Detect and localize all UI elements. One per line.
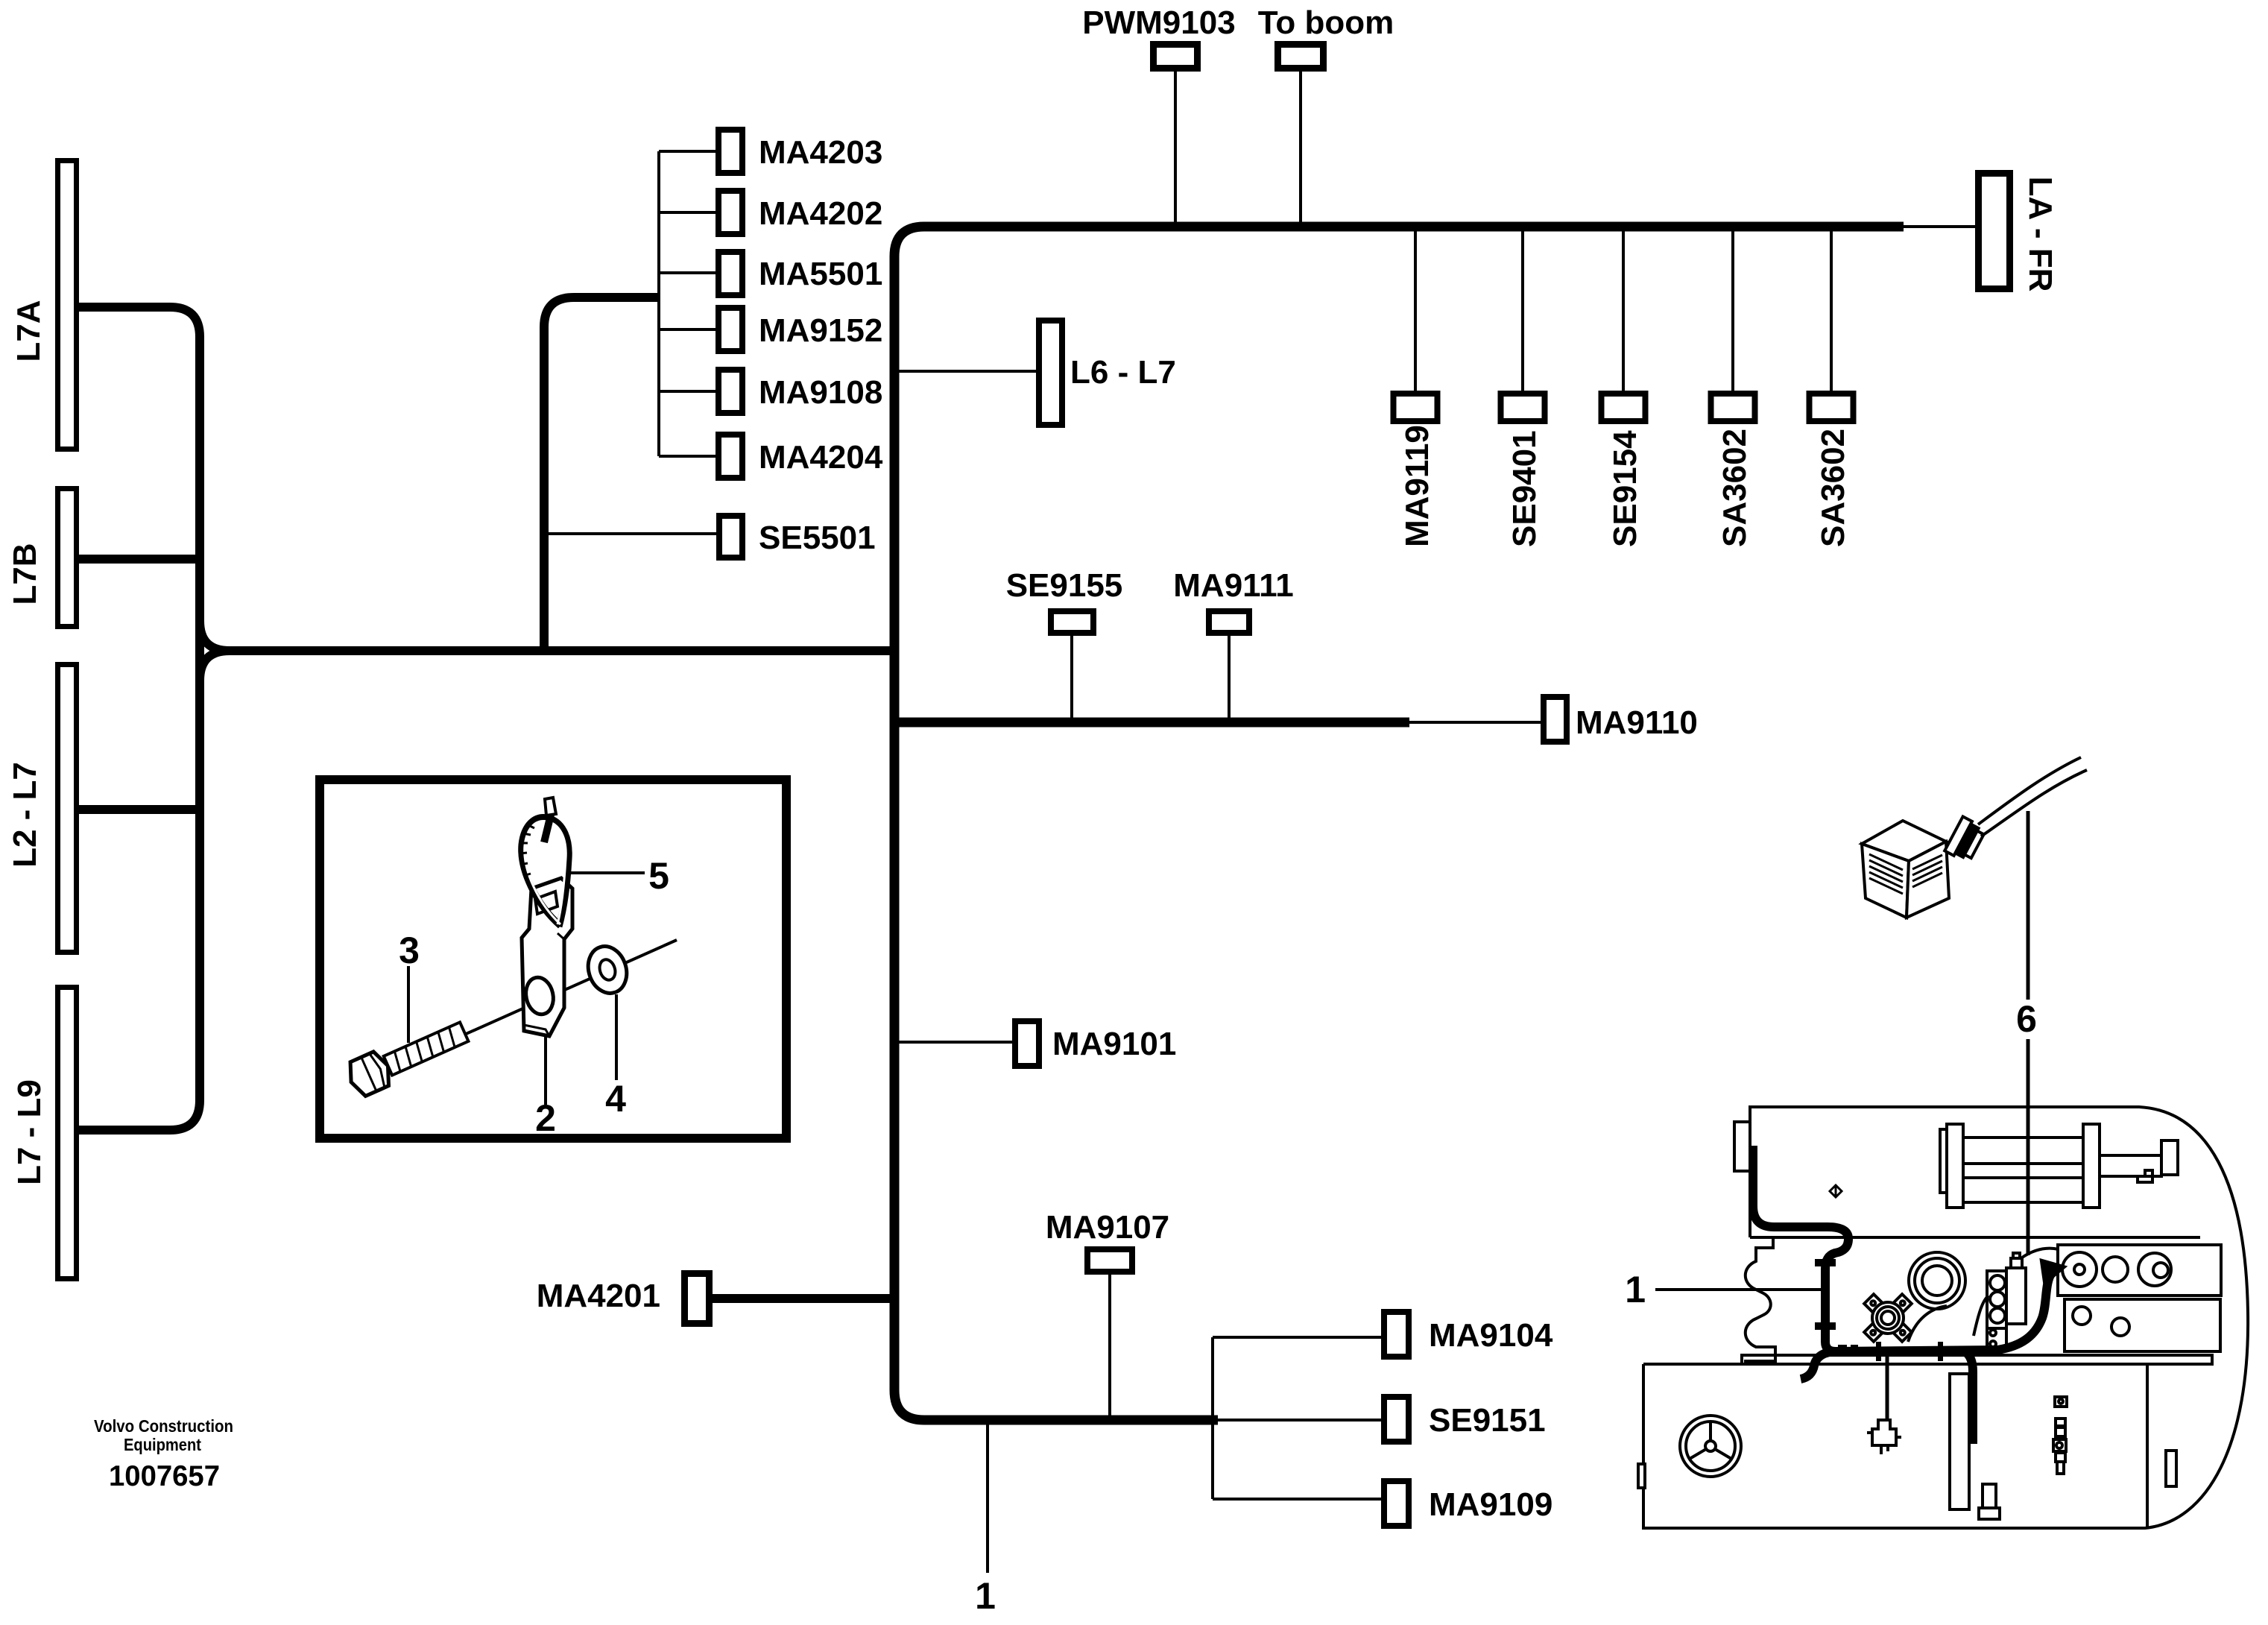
machine left tab (lower) [1638,1464,1645,1488]
svg-text:L6 - L7: L6 - L7 [1070,354,1176,391]
wire branch to fuel valve [1886,1351,1889,1422]
svg-text:MA9107: MA9107 [1046,1209,1169,1246]
svg-text:SE9401: SE9401 [1506,430,1543,547]
item 6 leader line [2027,811,2030,1255]
machine left wavy edge [1744,1237,1775,1361]
svg-text:MA5501: MA5501 [759,256,882,292]
wire SA3602 stem (first) [1731,231,1734,392]
hydraulic cylinder bleed detail [2138,1170,2152,1182]
ECU connector block [1987,1271,2006,1328]
wire thin curl near flange [1908,1306,1947,1342]
hydraulic cylinder end cap [2161,1140,2178,1175]
wire bus2 to MA9110 [1409,721,1541,724]
label 2 leader [544,1035,547,1105]
svg-text:2: 2 [535,1097,556,1139]
wire bus1 junction horizontal to main bus [200,621,894,681]
svg-text:1007657: 1007657 [109,1460,220,1492]
svg-text:SE9151: SE9151 [1429,1402,1546,1439]
DIN connector neck [1945,816,1986,863]
svg-text:1: 1 [1625,1269,1646,1310]
connector MA4202 [718,191,742,234]
DIN connector hatching [1869,854,1903,894]
svg-text:L7B: L7B [7,543,43,605]
svg-text:Equipment: Equipment [124,1435,201,1454]
wire to L6-L7 [899,370,1036,373]
lower right small rect [2166,1451,2176,1486]
connector SA3602 (second) [1810,394,1854,421]
bracket (item 2) [522,878,572,1036]
connector SE9155 [1051,611,1093,633]
wire to MA9101 [899,1041,1012,1044]
svg-text:L7A: L7A [10,300,47,362]
svg-text:PWM9103: PWM9103 [1082,4,1235,41]
svg-text:MA9110: MA9110 [1576,704,1698,741]
ECU bolt dots [1990,1330,1996,1336]
bus2 horizontal [899,718,1409,728]
connector MA9101 [1015,1021,1039,1066]
DIN connector cable [1978,757,2081,824]
machine mid deck line [1750,1236,2200,1239]
connector SE9154 [1602,394,1646,421]
instrument panel upper [2058,1245,2221,1296]
connector PWM9103 [1154,45,1198,69]
svg-text:MA4202: MA4202 [759,195,882,232]
svg-text:To boom: To boom [1258,4,1394,41]
cable tie (item 5) [519,798,569,927]
connector MA5501 [718,252,742,295]
wire MA stack bracket [659,151,716,456]
fuel valve symbol [1867,1420,1901,1454]
svg-text:MA4203: MA4203 [759,134,882,171]
wire to MA9104 [1213,1336,1381,1339]
svg-text:SE5501: SE5501 [759,520,876,556]
inset axis line through bolt, bracket and washer [402,940,677,1062]
connector bar L2-L7 [58,665,77,953]
wire feeder to MA stack [544,297,657,646]
lower body tall panel [1950,1374,1969,1509]
wire leader for item 1 (bottom) [986,1424,989,1573]
wire SA3602 stem (second) [1830,231,1833,392]
ECU small top connectors [2011,1258,2022,1268]
main bus: top bus, vertical trunk, bottom bus3 [894,227,1904,1420]
hydraulic cylinder shaft [2100,1155,2161,1176]
wire SE9154 stem [1622,231,1625,392]
connector MA9152 [718,308,742,351]
connector MA9110 [1544,697,1567,742]
machine harness thick path [1753,1146,2052,1444]
wire thin curl to ECU bottom [1974,1296,1989,1336]
connector MA9107 [1087,1249,1132,1272]
connector SA3602 (first) [1711,394,1755,421]
svg-text:MA9101: MA9101 [1052,1026,1176,1062]
pump circles [1909,1252,1965,1309]
svg-text:SA3602: SA3602 [1815,429,1851,547]
hydraulic cylinder rails [1963,1137,2083,1202]
svg-text:MA9111: MA9111 [1173,567,1293,604]
wire to SE9151 [1218,1419,1381,1422]
washer (item 4) [582,941,632,998]
label 5 leader [569,871,645,874]
floor plug [1983,1484,1996,1508]
svg-text:MA4204: MA4204 [759,439,883,476]
hydraulic cylinder right plate [2083,1124,2100,1208]
instrument panel lower [2065,1299,2220,1351]
connector MA4201 [685,1274,710,1324]
wire L2-L7 tee [79,805,204,814]
connector LA-FR [1979,174,2010,289]
label 4 leader [615,994,618,1080]
svg-text:4: 4 [605,1078,626,1120]
connector SE9401 [1501,394,1545,421]
small parts column [2055,1397,2067,1407]
connector To boom [1278,45,1324,69]
svg-text:MA9109: MA9109 [1429,1486,1552,1523]
connector L6-L7 [1039,321,1062,425]
svg-text:Volvo Construction: Volvo Construction [94,1416,233,1436]
wire SE9401 stem [1521,231,1524,392]
connector MA9108 [718,370,742,413]
harness hook lower-left [1801,1351,1836,1379]
wire MA4201 to main bus [713,1294,894,1303]
wire PWM9103 stem [1174,72,1177,224]
harness arrowhead [2042,1261,2063,1282]
wire harness trunk from L7A to L7-L9 (left tree) [79,307,200,1130]
label 3 leader [407,966,410,1043]
svg-text:MA9119: MA9119 [1399,425,1435,547]
svg-text:SA3602: SA3602 [1716,429,1753,547]
bolt head marker on upper harness [1830,1185,1842,1197]
wire vertical link for MA9104/MA9109 [1211,1337,1214,1499]
hydraulic cylinder left plate [1947,1124,1963,1208]
hydraulic cylinder left bracket [1940,1129,1947,1193]
svg-text:MA4201: MA4201 [537,1278,660,1314]
wire L7B tee [79,555,204,564]
connector MA9109 [1384,1481,1409,1526]
wire MA9107 stem [1108,1275,1111,1416]
wire To boom stem [1299,72,1302,224]
bolt (item 3) [344,1015,472,1099]
wire SE9155 stem [1070,636,1073,718]
svg-text:LA - FR: LA - FR [2022,177,2059,292]
connector MA4203 [718,130,742,173]
svg-text:SE9154: SE9154 [1607,430,1643,547]
machine upper body outline [1643,1107,2248,1528]
svg-text:MA9104: MA9104 [1429,1317,1553,1354]
machine lower body top edge [1643,1364,2147,1528]
machine left tab (upper) [1734,1122,1750,1171]
connector SE9151 [1384,1397,1409,1442]
connector MA9111 [1209,611,1249,633]
steering wheel [1680,1416,1741,1477]
svg-text:L7 - L9: L7 - L9 [11,1079,48,1185]
svg-text:SE9155: SE9155 [1006,567,1123,604]
cross flange [1850,1280,1926,1356]
connector SE5501 [719,516,742,558]
svg-text:6: 6 [2016,998,2037,1040]
connector bar L7-L9 [58,988,77,1279]
wire to SE5501 [549,532,716,535]
svg-text:L2 - L7: L2 - L7 [7,762,43,868]
svg-text:1: 1 [975,1575,996,1617]
wire to MA9109 [1213,1498,1381,1501]
inset detail box frame [320,780,786,1138]
wire MA9111 stem [1228,636,1231,718]
svg-text:MA9108: MA9108 [759,374,882,411]
harness clamps [1815,1259,1836,1266]
svg-text:MA9152: MA9152 [759,312,882,349]
svg-text:3: 3 [399,930,420,971]
wire leader for machine item 1 [1655,1288,1825,1291]
machine shelf line [1742,1355,2212,1364]
connector MA9104 [1384,1312,1409,1357]
wire from ECU top to item 6 line [2022,1249,2059,1258]
connector bar L7A [58,161,77,449]
svg-text:5: 5 [648,855,669,897]
wire MA9119 stem [1414,231,1417,392]
connector MA9119 [1394,394,1438,421]
wire top bus to LA-FR [1904,225,1975,228]
connector MA4204 [718,435,742,478]
harness descender below deck [1965,1351,1973,1444]
connector bar L7B [58,489,77,627]
DIN connector (item 6) cube [1862,821,1949,918]
